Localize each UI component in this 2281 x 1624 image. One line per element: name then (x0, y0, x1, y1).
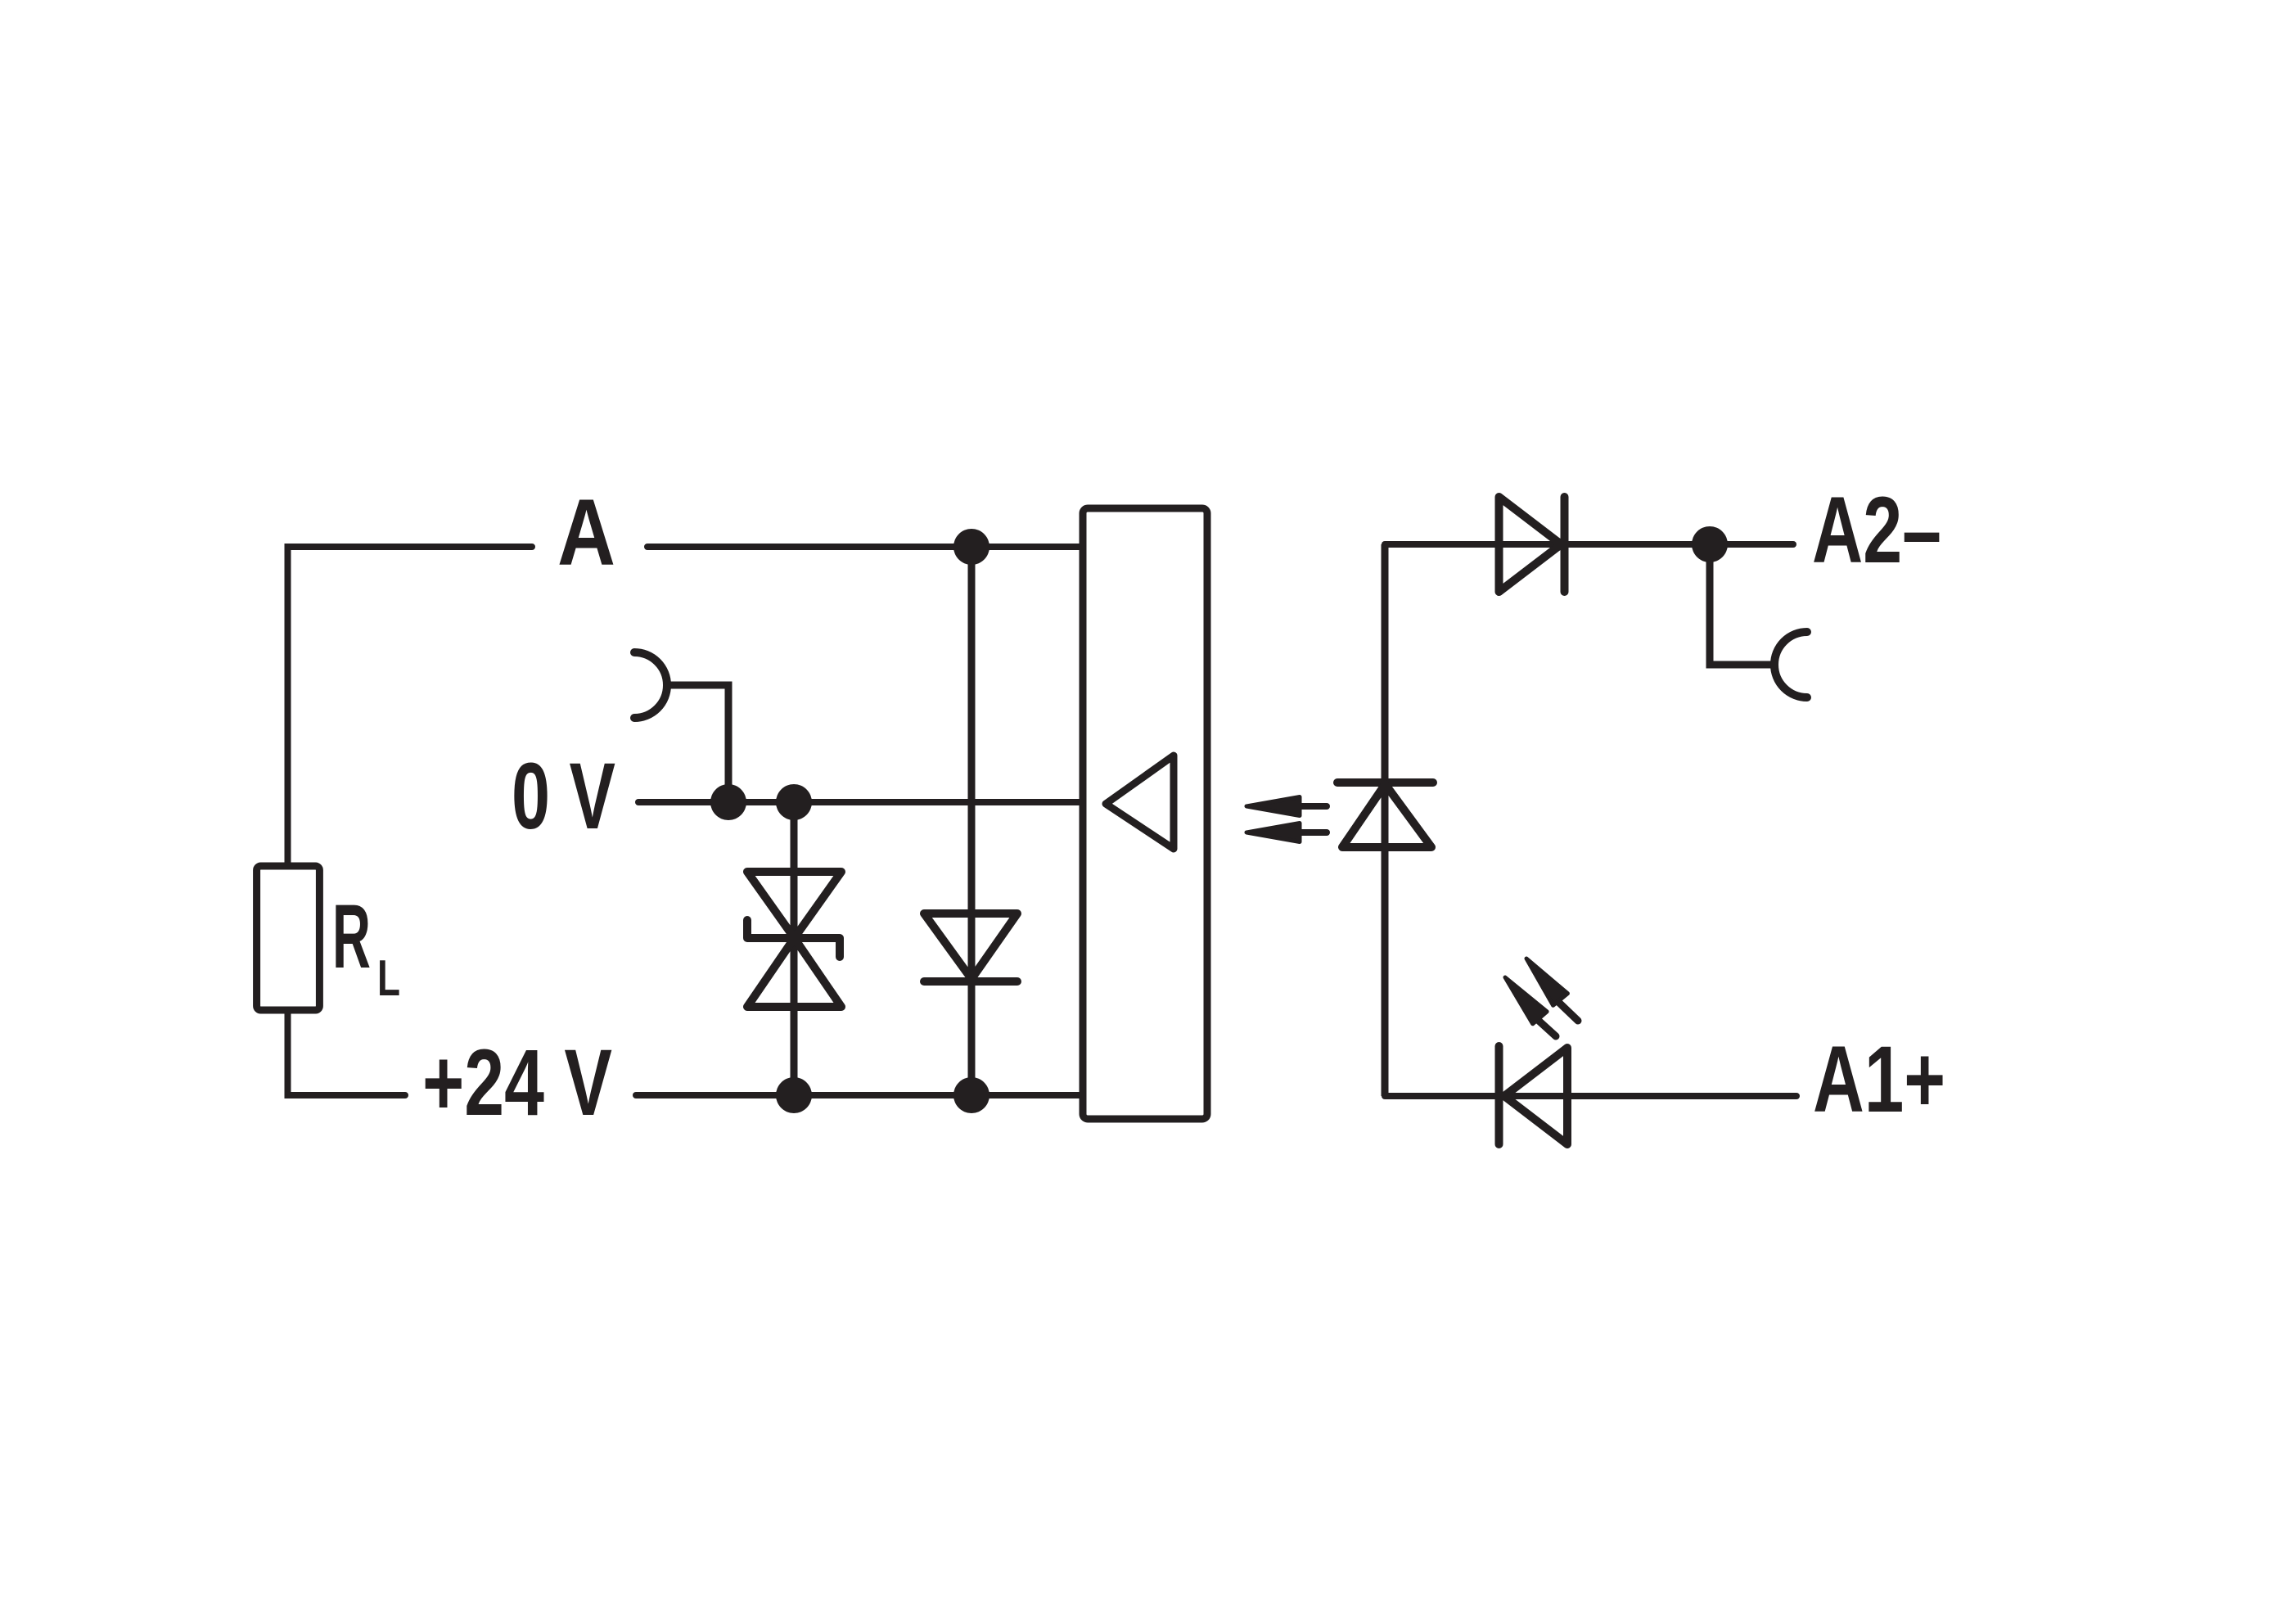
svg-text:0 V: 0 V (512, 744, 615, 849)
svg-text:A1+: A1+ (1813, 1027, 1945, 1132)
opto LED triangle (1342, 784, 1431, 847)
svg-text:A: A (557, 480, 615, 585)
junction 0 V suppressor branch (776, 784, 812, 820)
input interface box (1083, 508, 1207, 1119)
diode D triangle (924, 913, 1017, 979)
wire right loop top to A2 terminal (1385, 541, 1793, 548)
suppressor diode TVS bar (747, 920, 840, 957)
wire A2 junction to clamp contact (1710, 544, 1774, 665)
clamp contact at A2 (1774, 632, 1807, 697)
opto LED bar (1337, 778, 1433, 787)
suppressor diode TVS upper triangle (747, 872, 841, 938)
wire load resistor RL to +24 V (288, 1010, 406, 1095)
wire right loop bottom to A1 terminal (1385, 1093, 1796, 1099)
junction +24 V diode branch (953, 1077, 989, 1113)
opto light arrow upper (1246, 797, 1327, 816)
status LED emission arrow left (1505, 977, 1556, 1036)
svg-text:+24 V: +24 V (422, 1031, 612, 1135)
status LED anode bar (1495, 1046, 1503, 1144)
diode D cathode bar (924, 977, 1017, 986)
wire 0 V to input box (638, 799, 1083, 805)
wire +24 V to input box (636, 1092, 1083, 1098)
wire clamp contact to 0 V junction (667, 685, 728, 802)
junction +24 V suppressor branch (776, 1077, 812, 1113)
svg-text:A2–: A2– (1812, 478, 1941, 583)
resistor RL (257, 866, 320, 1010)
wire node A to load resistor RL (288, 547, 533, 866)
svg-text:R: R (332, 886, 371, 987)
amplifier symbol (1106, 756, 1174, 849)
wire 0 V junction through suppressor to +24 V junction (791, 802, 798, 1095)
suppressor diode TVS lower triangle (747, 938, 841, 1007)
svg-text:L: L (377, 950, 400, 1007)
junction node A (953, 529, 989, 565)
diode D2 triangle (1499, 497, 1562, 592)
status LED emission arrow right (1526, 959, 1578, 1021)
opto light arrow lower (1246, 823, 1327, 842)
status LED triangle (1504, 1048, 1567, 1144)
wire node A junction down through diode D to +24 V junction (968, 547, 976, 1095)
junction 0 V clamp branch (710, 784, 746, 820)
wire node A to input box (647, 544, 1083, 550)
junction A2 (1692, 526, 1728, 562)
wire right loop vertical through opto LED (1382, 544, 1389, 1096)
diode D2 cathode bar (1561, 497, 1569, 592)
clamp contact at 0 V (634, 652, 667, 718)
